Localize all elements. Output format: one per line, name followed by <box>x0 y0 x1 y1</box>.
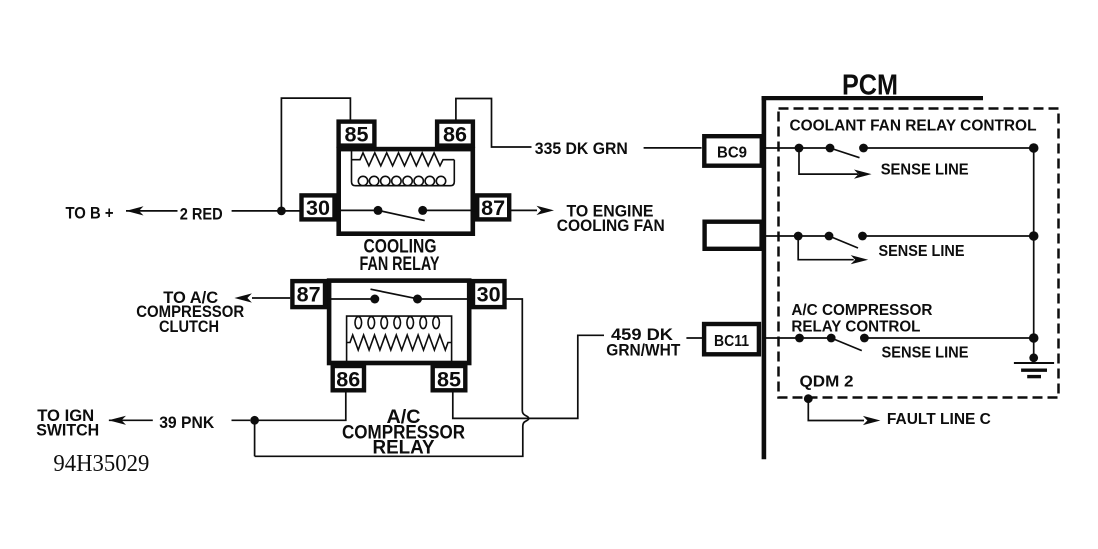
driver switch row 3: contact line <box>800 337 832 339</box>
relay coil resistor element (A/C compressor relay) <box>347 335 452 350</box>
switch movable blade (cooling fan relay) <box>378 210 425 220</box>
svg-text:39 PNK: 39 PNK <box>159 413 215 432</box>
connector pin box (unlabeled, row 2) <box>705 222 762 249</box>
wire: A/C pin 85 down, right over hop, up to 459 DK GRN/WHT <box>453 335 604 418</box>
svg-text:PCM: PCM <box>842 69 898 101</box>
svg-text:85: 85 <box>437 367 461 391</box>
svg-text:87: 87 <box>297 282 321 306</box>
wire: ground bus vertical <box>1033 148 1035 361</box>
svg-text:86: 86 <box>336 367 360 391</box>
wire: row 2 to ground bus <box>863 235 1034 237</box>
wire: B+ feed left segment (arrow to 2 RED label) <box>126 210 178 212</box>
switch contact line to pin 30 (A/C compressor relay) <box>418 298 474 300</box>
svg-text:SENSE LINE: SENSE LINE <box>882 345 969 362</box>
pin 87 box (A/C compressor relay) <box>292 281 325 307</box>
svg-text:87: 87 <box>481 196 505 220</box>
svg-text:GRN/WHT: GRN/WHT <box>606 341 681 360</box>
svg-text:30: 30 <box>477 282 501 306</box>
svg-text:FAULT LINE C: FAULT LINE C <box>887 411 991 428</box>
wire: BC11 into driver row 3 <box>763 337 800 339</box>
node: row 2 ground bus junction <box>1029 231 1039 241</box>
pin 87 box (cooling fan relay) <box>477 195 509 219</box>
wire: 39 PNK segment right of label <box>232 419 251 421</box>
svg-text:85: 85 <box>345 122 369 146</box>
pin 85 box (A/C compressor relay) <box>433 366 466 390</box>
PCM module dashed box <box>779 109 1059 398</box>
wire: 39 PNK segment left of label <box>109 419 153 421</box>
A/C compressor relay K2 body <box>329 281 469 363</box>
pin 30 box (cooling fan relay) <box>302 195 335 219</box>
wire: row 2 from unlabeled pin box <box>763 235 798 237</box>
svg-text:BC11: BC11 <box>714 333 749 350</box>
connector pin BC9 box <box>704 136 762 166</box>
junction node 39 PNK branch <box>250 416 259 425</box>
switch contact dot left (A/C compressor relay) <box>370 295 379 304</box>
svg-text:COOLANT FAN RELAY CONTROL: COOLANT FAN RELAY CONTROL <box>790 118 1037 135</box>
ground symbol <box>1014 362 1054 364</box>
wire: pin 86 up and over to 335 DK GRN <box>456 99 532 148</box>
relay coil inductor loops (cooling fan relay) <box>358 176 445 185</box>
sense line arrow row 2 <box>798 236 854 260</box>
svg-text:30: 30 <box>306 196 330 220</box>
node: row 1 ground bus junction <box>1029 143 1039 153</box>
node: row 3 ground bus junction <box>1029 333 1039 343</box>
svg-text:BC9: BC9 <box>717 145 747 162</box>
arrow to B+ (left-pointing) <box>126 206 144 215</box>
switch contact dot right (A/C compressor relay) <box>413 295 422 304</box>
arrow to ignition switch (left-pointing) <box>109 416 127 425</box>
PCM top bar <box>762 96 983 100</box>
driver row 1 node dots <box>795 144 804 153</box>
wire: junction up and over to pin 85 <box>281 98 350 211</box>
wire: A/C pin 87 to clutch arrow <box>252 297 290 299</box>
wire: BC9 into driver row 1 <box>763 147 799 149</box>
wire: A/C pin 30 right, down with hop jog, to bottom run <box>255 299 529 456</box>
svg-text:RELAY: RELAY <box>373 437 435 458</box>
arrow to engine cooling fan (right-pointing) <box>537 206 555 215</box>
arrow to A/C compressor clutch (left-pointing) <box>234 293 252 302</box>
driver switch row 2: contact line <box>798 235 829 237</box>
svg-text:COOLING FAN: COOLING FAN <box>557 216 665 235</box>
wire: junction riser to 39 PNK node <box>254 420 256 456</box>
switch contact dot left (cooling fan relay) <box>374 206 383 215</box>
relay coil bracket (cooling fan relay) <box>352 151 455 186</box>
wire: 335 DK GRN to BC9 <box>644 147 702 149</box>
svg-text:335 DK GRN: 335 DK GRN <box>535 139 628 158</box>
switch contact dot right (cooling fan relay) <box>418 206 427 215</box>
pin 86 box (cooling fan relay) <box>437 122 473 146</box>
relay coil resistor element (cooling fan relay) <box>352 153 455 166</box>
svg-text:TO B +: TO B + <box>66 203 114 222</box>
svg-text:2 RED: 2 RED <box>180 205 223 224</box>
svg-text:94H35029: 94H35029 <box>53 451 149 477</box>
svg-text:QDM 2: QDM 2 <box>800 374 854 391</box>
driver row 2 node dots <box>794 232 803 241</box>
fault line C arrow <box>808 399 864 421</box>
svg-text:A/C COMPRESSOR: A/C COMPRESSOR <box>791 302 932 319</box>
switch contact line from pin 87 (A/C compressor relay) <box>327 298 375 300</box>
switch contact line to pin 87 (cooling fan relay) <box>423 209 477 211</box>
PCM boundary vertical line <box>762 96 767 459</box>
connector pin BC11 box <box>704 324 759 354</box>
svg-text:FAN RELAY: FAN RELAY <box>360 254 440 275</box>
pin 30 box (A/C compressor relay) <box>473 281 505 307</box>
svg-text:SENSE LINE: SENSE LINE <box>879 243 965 260</box>
wire: row 1 to ground bus <box>864 147 1034 149</box>
node above ground <box>1029 353 1038 362</box>
pin 86 box (A/C compressor relay) <box>333 366 364 390</box>
switch contact line from pin 30 (cooling fan relay) <box>336 209 378 211</box>
wire: 459 DK GRN/WHT to BC11 <box>686 337 702 339</box>
svg-text:SENSE LINE: SENSE LINE <box>881 162 969 179</box>
driver switch row 1 blade <box>830 148 860 158</box>
svg-text:RELAY CONTROL: RELAY CONTROL <box>791 319 920 336</box>
switch movable blade (A/C compressor relay) <box>371 289 418 299</box>
node QDM 2 on dashed boundary <box>804 394 813 403</box>
relay coil bracket (A/C compressor relay) <box>347 316 452 361</box>
sense line arrow row 1 <box>799 148 858 174</box>
svg-text:SWITCH: SWITCH <box>36 421 99 440</box>
wire: node to A/C pin 86 <box>255 391 346 421</box>
wire: row 3 to ground bus <box>864 337 1033 339</box>
pin 85 box (cooling fan relay) <box>339 122 375 146</box>
driver switch row 2 blade <box>829 236 858 248</box>
relay coil inductor loops (A/C compressor relay) <box>355 317 439 329</box>
driver switch row 3 blade <box>831 338 862 351</box>
svg-text:CLUTCH: CLUTCH <box>159 317 219 336</box>
junction node at B+ branch <box>277 207 286 216</box>
driver switch row 1: contact line <box>799 147 830 149</box>
svg-text:86: 86 <box>443 122 467 146</box>
cooling fan relay K1 body <box>339 149 473 234</box>
wire: pin 87 to engine cooling fan arrow <box>509 209 537 211</box>
driver row 3 node dots <box>795 334 804 343</box>
wire: 2 RED to junction and pin 30 <box>232 210 301 212</box>
